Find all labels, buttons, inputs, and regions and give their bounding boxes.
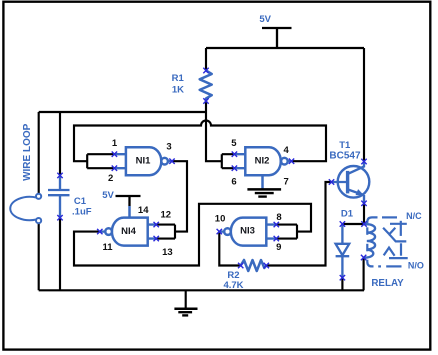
junction x NI3 pin 9 bbox=[274, 236, 279, 241]
svg-text:C1: C1 bbox=[74, 196, 87, 207]
svg-text:1: 1 bbox=[112, 138, 118, 149]
junction x C1 bottom bbox=[57, 215, 62, 220]
relay contact N/C (top) bbox=[383, 221, 407, 236]
wire: NI1 input tie bar bbox=[87, 154, 114, 168]
svg-text:5V: 5V bbox=[259, 14, 271, 25]
svg-text:2: 2 bbox=[108, 173, 113, 184]
relay contact N/O (bottom) bbox=[384, 243, 408, 258]
svg-text:RELAY: RELAY bbox=[371, 278, 404, 289]
power symbol 5V (top) bbox=[262, 28, 292, 48]
svg-text:.1uF: .1uF bbox=[72, 207, 92, 218]
nand gate NI1 bbox=[114, 147, 172, 175]
junction x NI4 pin 12 bbox=[154, 222, 159, 227]
junction x relay coil bottom bbox=[361, 255, 366, 260]
wire: NI2 input tie bar bbox=[222, 154, 235, 168]
junction x NI3 pin 8 bbox=[274, 222, 279, 227]
svg-text:8: 8 bbox=[276, 212, 281, 223]
svg-text:12: 12 bbox=[161, 210, 172, 221]
junction x T1 base bbox=[329, 179, 334, 184]
wire: C1 rail upper bbox=[59, 112, 61, 175]
wire: R1 bottom lead to NI2 inputs bbox=[206, 101, 222, 161]
svg-text:NI3: NI3 bbox=[240, 226, 255, 237]
junction x NI1 pin 3 bbox=[169, 159, 174, 164]
resistor R1 bbox=[200, 71, 212, 102]
junction x R1 top bbox=[203, 68, 208, 73]
relay coil bbox=[364, 224, 376, 257]
wire: ground rail bottom bbox=[39, 289, 364, 291]
junction x NI4 pin 13 bbox=[154, 236, 159, 241]
wire: NI2 output feedback to NI1 inputs (hop over R1 lead) bbox=[74, 121, 326, 162]
wire: collector rail down right side bbox=[363, 48, 365, 162]
relay common pole arm bbox=[389, 234, 406, 241]
junction x C1 top bbox=[57, 173, 62, 178]
junction x D1 anode bbox=[340, 221, 345, 226]
junction x NI2 pin 6 bbox=[232, 166, 237, 171]
wire: R1 top lead bbox=[205, 48, 207, 71]
wire: top 5V rail bbox=[206, 47, 364, 49]
junction x NI4 pin 11 bbox=[97, 229, 102, 234]
svg-text:D1: D1 bbox=[341, 208, 354, 219]
wire: D1 bottom to ground rail bbox=[341, 278, 343, 291]
junction x NI1 pin 1 bbox=[112, 152, 117, 157]
nand gate NI3 (mirrored) bbox=[219, 218, 276, 246]
svg-text:13: 13 bbox=[162, 247, 173, 258]
nand gate NI4 (mirrored) bbox=[100, 218, 156, 246]
junction x NI3 pin 10 bbox=[217, 229, 222, 234]
wire: relay node to D1 top bbox=[342, 223, 364, 225]
wire: NI3 output down to R2 bbox=[219, 232, 240, 266]
relay dashed enclosure box bbox=[367, 217, 401, 266]
junction x NI2 pin 5 bbox=[232, 152, 237, 157]
wire loop sensor symbol bbox=[10, 194, 41, 224]
junction x relay node bbox=[361, 221, 366, 226]
wire: left loop rail lower bbox=[38, 223, 40, 290]
junction x T1 emitter bbox=[361, 201, 366, 206]
wire: NI1 output to NI4 inputs bbox=[156, 161, 187, 238]
transistor T1 bbox=[332, 162, 370, 204]
svg-text:5V: 5V bbox=[102, 190, 114, 201]
junction x NI2 pin 4 bbox=[289, 159, 294, 164]
svg-text:BC547: BC547 bbox=[329, 151, 361, 162]
ground symbol bottom center bbox=[174, 290, 197, 315]
junction x T1 collector bbox=[361, 159, 366, 164]
wire: C1 rail lower bbox=[59, 218, 61, 291]
svg-text:5: 5 bbox=[231, 138, 237, 149]
svg-text:6: 6 bbox=[231, 177, 236, 188]
diode D1 bbox=[336, 224, 350, 278]
junction x NI1 pin 2 bbox=[112, 166, 117, 171]
svg-text:NI1: NI1 bbox=[136, 155, 152, 166]
svg-text:7: 7 bbox=[283, 177, 288, 188]
wire: relay coil bottom to ground rail bbox=[363, 258, 365, 291]
nand gate NI2 bbox=[234, 147, 291, 189]
svg-text:14: 14 bbox=[138, 205, 149, 216]
capacitor C1 bbox=[48, 175, 70, 217]
svg-text:11: 11 bbox=[102, 242, 113, 253]
svg-text:1K: 1K bbox=[172, 84, 184, 95]
wire: loop sense rail (node to R1 bottom) bbox=[39, 111, 206, 113]
junction x R1 bottom bbox=[203, 98, 208, 103]
junction x R2 right bbox=[264, 263, 269, 268]
svg-text:9: 9 bbox=[276, 242, 281, 253]
svg-text:NI4: NI4 bbox=[121, 226, 137, 237]
svg-text:N/O: N/O bbox=[408, 260, 424, 270]
svg-text:4: 4 bbox=[284, 145, 290, 156]
svg-text:WIRE LOOP: WIRE LOOP bbox=[22, 123, 33, 181]
wire: emitter down to relay node bbox=[363, 203, 365, 224]
svg-text:4.7K: 4.7K bbox=[223, 280, 243, 291]
wire: left loop rail upper bbox=[38, 112, 40, 194]
wire: R2 to T1 base bbox=[266, 182, 331, 266]
svg-text:R1: R1 bbox=[172, 73, 185, 84]
power symbol 5V (NI4 pin 14) bbox=[116, 196, 141, 206]
wire: NI4 output to NI3 inputs bbox=[74, 204, 311, 266]
resistor R2 bbox=[241, 260, 267, 271]
svg-text:N/C: N/C bbox=[406, 211, 422, 221]
svg-text:NI2: NI2 bbox=[255, 156, 270, 167]
junction x R2 left bbox=[238, 263, 243, 268]
ground symbol under NI2 bbox=[247, 189, 281, 196]
svg-text:10: 10 bbox=[215, 213, 226, 224]
junction x D1 cathode bbox=[340, 275, 345, 280]
svg-text:3: 3 bbox=[166, 142, 171, 153]
wire: NI4 pin 14 stub bbox=[128, 206, 131, 218]
svg-text:T1: T1 bbox=[339, 140, 351, 151]
